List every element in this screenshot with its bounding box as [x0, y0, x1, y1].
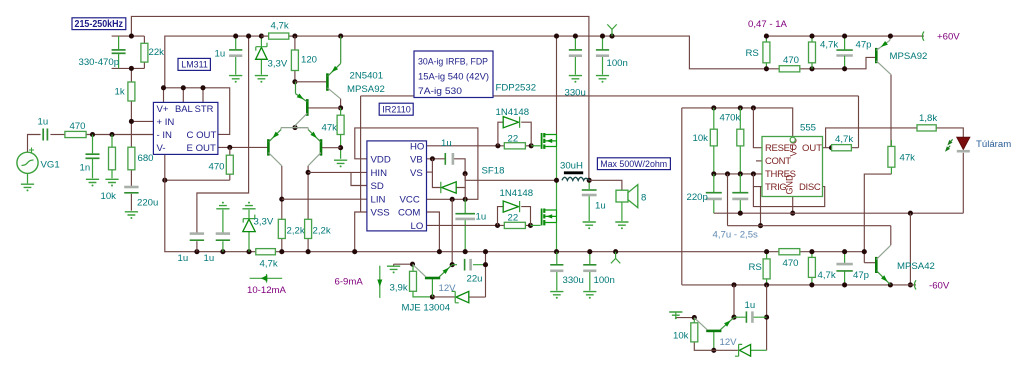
node diff tail	[292, 125, 297, 130]
node supply riser top	[246, 34, 251, 39]
node tank bottom	[129, 66, 134, 71]
ground trig	[669, 312, 682, 319]
node trig 1u left	[731, 315, 736, 320]
voltage source VG1	[17, 152, 38, 173]
wire 555 supply rail	[682, 108, 793, 137]
svg-text:2N5401: 2N5401	[350, 71, 384, 82]
svg-text:STR: STR	[195, 103, 214, 114]
resistor 4,7k out	[832, 145, 852, 151]
svg-text:HO: HO	[410, 141, 424, 152]
transistor Q6 MPSA92	[875, 48, 878, 63]
wire right diff base	[322, 147, 341, 149]
svg-text:10k: 10k	[693, 133, 709, 144]
node VCC reg tap	[450, 197, 455, 202]
node HO gate left	[495, 143, 500, 148]
wire 22k leads	[143, 36, 145, 68]
capacitor 1u output	[582, 189, 597, 191]
node bottom 100n rail	[587, 249, 592, 254]
ground VG1	[21, 184, 34, 191]
svg-text:-60V: -60V	[929, 280, 950, 291]
wire mirror collector riser	[340, 99, 342, 108]
node 1u bypass	[233, 34, 238, 39]
capacitor 47p top	[836, 49, 852, 51]
svg-text:GND: GND	[785, 174, 795, 195]
node thres disc	[751, 171, 756, 176]
capacitor 330u top	[569, 49, 582, 51]
wire 47k2 leads	[890, 146, 892, 174]
svg-text:- IN: - IN	[157, 130, 173, 141]
wire trig base row	[694, 342, 738, 350]
zener 3,3V top	[256, 47, 268, 59]
svg-text:12V: 12V	[720, 337, 738, 348]
node RS2 top	[764, 249, 769, 254]
node 47p top-b	[842, 66, 847, 71]
wire VS stub	[427, 171, 433, 173]
diode D3 1N4148 bottom	[503, 201, 518, 212]
svg-text:1N4148: 1N4148	[500, 188, 534, 199]
svg-text:47p: 47p	[856, 40, 872, 51]
node 47p2 top	[842, 249, 847, 254]
wire lower source to rail	[556, 223, 558, 252]
node V- row	[162, 178, 167, 183]
wire bottom 100n leads	[589, 252, 591, 291]
node MPSA92 emitter	[888, 34, 893, 39]
node tank top	[129, 34, 134, 39]
ground 330u top	[569, 76, 582, 83]
wire 30uH output node risers	[588, 180, 590, 221]
wire 470 feedback leads	[229, 147, 231, 180]
node trig drop	[758, 223, 763, 228]
resistor 4,7k top	[809, 42, 816, 63]
node mirror emitter top	[338, 34, 343, 39]
svg-text:3,3V: 3,3V	[254, 217, 274, 228]
ground 10k input	[105, 179, 118, 186]
ground 220u	[125, 212, 138, 219]
node drain column top	[554, 34, 559, 39]
wire trigger rail	[728, 225, 891, 227]
wire mid rail right segment	[800, 251, 865, 253]
wire 47p top leads	[844, 36, 846, 69]
wire trig 1u row	[734, 316, 767, 318]
svg-text:4,7k: 4,7k	[835, 134, 853, 145]
wire 4,7k osc leads	[261, 35, 295, 37]
svg-text:1u: 1u	[476, 212, 487, 223]
resistor 10k trig	[691, 323, 698, 342]
capacitor 1u float-a	[190, 239, 204, 241]
svg-text:4,7u - 2,5s: 4,7u - 2,5s	[713, 229, 759, 240]
wire VG1 to input cap	[28, 135, 41, 153]
svg-text:1u: 1u	[745, 300, 756, 311]
svg-text:330u: 330u	[565, 87, 586, 98]
node trig base	[711, 348, 716, 353]
wire half-bridge drain column	[556, 36, 558, 134]
wire 470k leads	[739, 108, 741, 174]
wire right 2,2k bottom	[307, 239, 309, 252]
svg-text:1u: 1u	[441, 138, 452, 149]
capacitor 4,7u timing	[732, 192, 748, 194]
wire 4,7k top leads	[811, 36, 813, 69]
svg-text:LIN: LIN	[371, 194, 386, 205]
resistor RS top	[763, 42, 770, 63]
ground 100n bottom	[583, 292, 596, 299]
svg-text:15A-ig 540 (42V): 15A-ig 540 (42V)	[418, 72, 489, 83]
svg-text:220u: 220u	[137, 197, 158, 208]
node 3,3V-a	[259, 34, 264, 39]
svg-text:LM311: LM311	[181, 60, 208, 71]
svg-text:4,7k: 4,7k	[818, 270, 836, 281]
transistor Q1 2N5401 (upper)	[326, 73, 329, 91]
wire trig gnd row	[676, 317, 694, 319]
capacitor 1u float-b	[216, 239, 230, 241]
wire reset riser	[753, 108, 762, 148]
node mirror diode node	[338, 105, 343, 110]
capacitor 1u bootstrap	[444, 153, 446, 165]
wire trig drop	[760, 187, 762, 226]
node gnd riser rail2	[908, 282, 913, 287]
wire diff tail link	[295, 127, 307, 129]
wire LM311 top pin stubs	[164, 88, 204, 103]
node thres trig-drop	[725, 171, 730, 176]
node bridge midpoint	[554, 178, 559, 183]
wire bottom gate lead	[531, 224, 541, 226]
wire bottom 4,7k leads	[811, 252, 813, 285]
ground 100n top	[596, 76, 609, 83]
svg-text:OUT: OUT	[802, 143, 822, 154]
wire zener2 anode lead	[751, 349, 767, 351]
capacitor 1u trig	[745, 311, 747, 322]
transistor Q7 MPSA42	[875, 257, 878, 273]
current arrow 6-9mA	[379, 266, 381, 298]
node LO gate right	[528, 223, 533, 228]
node RS2 bottom	[764, 282, 769, 287]
svg-text:RS: RS	[749, 262, 762, 273]
resistor 10k input	[109, 147, 116, 170]
capacitor 100n top	[596, 49, 609, 51]
svg-text:MPSA92: MPSA92	[890, 51, 928, 62]
svg-text:4,7k: 4,7k	[260, 258, 278, 269]
resistor 680	[128, 147, 135, 170]
resistor 3,9k	[410, 271, 417, 291]
timer U3 555 box	[762, 137, 823, 197]
svg-text:C OUT: C OUT	[187, 130, 217, 141]
node reset top	[751, 105, 756, 110]
node 100n top	[600, 34, 605, 39]
inductor L1 30uH	[564, 171, 583, 174]
wire HO gate row	[427, 145, 532, 147]
capacitor 47p bottom	[836, 270, 852, 272]
inverted ground 3,3V float	[242, 202, 255, 209]
wire 555 GND pin	[792, 197, 794, 214]
wire right diff collector riser	[307, 166, 309, 220]
wire CONT stub	[756, 160, 762, 162]
wire bottom 47p leads	[844, 252, 846, 285]
svg-text:22k: 22k	[149, 47, 165, 58]
connector -60V	[914, 280, 916, 289]
node HO gate right	[529, 143, 534, 148]
capacitor 22u	[464, 259, 466, 271]
annotation box Max 500W/2ohm	[597, 158, 670, 170]
capacitor 100n bottom	[583, 264, 596, 266]
svg-text:CONT: CONT	[765, 156, 791, 167]
node 470k top	[738, 105, 743, 110]
svg-text:1u: 1u	[178, 253, 189, 264]
node 47p top-t	[842, 34, 847, 39]
svg-text:RS: RS	[746, 48, 759, 59]
wire 3,9k bottom	[413, 291, 432, 297]
wire left 2,2k bottom	[281, 239, 283, 252]
wire top gate lead	[531, 145, 540, 147]
wire oscillator divider column (1k-680-220u)	[130, 68, 132, 210]
wire mje base stub	[431, 279, 433, 297]
svg-text:4,7k: 4,7k	[271, 21, 289, 32]
speaker SPK	[616, 190, 628, 202]
wire 47k2 top lead	[890, 140, 892, 146]
svg-text:555: 555	[800, 123, 816, 134]
node left 2,2k rail	[279, 249, 284, 254]
resistor 22k	[141, 43, 148, 62]
diode D2 SF18	[442, 182, 457, 193]
node RS top-t	[764, 34, 769, 39]
svg-text:BAL: BAL	[175, 103, 193, 114]
svg-text:215-250kHz: 215-250kHz	[75, 19, 124, 30]
svg-text:MJE 13004: MJE 13004	[402, 303, 451, 314]
node right 2,2k rail	[306, 249, 311, 254]
led D4 Tulaream	[957, 137, 970, 149]
diode D1 1N4148 top	[503, 117, 518, 128]
wire VS to bridge midpoint	[465, 174, 556, 181]
resistor 120	[291, 50, 298, 71]
svg-text:100n: 100n	[594, 275, 615, 286]
wire VB cap to VS corner	[453, 159, 465, 174]
svg-text:0,47 - 1A: 0,47 - 1A	[748, 19, 788, 30]
svg-text:30uH: 30uH	[560, 160, 583, 171]
wire LED cathode drop	[962, 153, 964, 213]
wire 555 supply riser	[681, 108, 683, 285]
wire 330-470p leads	[118, 36, 120, 68]
svg-text:VG1: VG1	[41, 160, 60, 171]
wire trig transistor base	[713, 332, 715, 351]
svg-text:22: 22	[508, 133, 519, 144]
wire VSS wire	[355, 212, 367, 252]
node BAL stub	[181, 85, 186, 90]
svg-text:Max 500W/2ohm: Max 500W/2ohm	[600, 159, 667, 170]
node zener 1u tap	[764, 315, 769, 320]
label LM311	[178, 58, 210, 70]
resistor 2,2k left	[278, 219, 285, 238]
resistor 1k	[128, 82, 135, 101]
transistor Q2 (cascode)	[306, 99, 309, 116]
resistor 1,8k	[917, 125, 936, 131]
svg-text:IR2110: IR2110	[382, 104, 411, 115]
wire left diff collector riser	[281, 166, 283, 220]
inverted ground 1u float-b	[216, 202, 229, 209]
wire SD rail drop to VSS row	[360, 96, 362, 212]
node diff ground tap	[338, 145, 343, 150]
svg-text:330u: 330u	[563, 275, 584, 286]
wire timing to trig rail riser	[727, 174, 729, 226]
node VB	[430, 156, 435, 161]
mosfet M1 upper	[541, 133, 543, 149]
wire GND rail	[714, 212, 964, 214]
svg-text:1n: 1n	[80, 162, 91, 173]
svg-text:+ IN: + IN	[157, 117, 175, 128]
wire 10k trig leads	[693, 318, 695, 323]
resistor 10k 555	[710, 129, 717, 146]
wire +60V rail	[766, 35, 924, 37]
node 47k2b top	[809, 249, 814, 254]
svg-text:V+: V+	[157, 104, 169, 115]
zener 12V reg	[456, 291, 469, 302]
resistor 22 bottom	[504, 222, 525, 228]
wire top diode branch	[498, 122, 531, 146]
svg-text:FDP2532: FDP2532	[496, 83, 537, 94]
wire bottom diode branch	[498, 207, 531, 226]
wire trig gnd stem	[675, 312, 677, 318]
wire front-end positive rail (V+ net)	[165, 36, 767, 88]
node 10k junction	[109, 132, 114, 137]
svg-text:VCC: VCC	[400, 194, 420, 205]
label IR2110	[379, 103, 413, 115]
wire 1,8k row	[826, 128, 964, 148]
svg-text:47p: 47p	[853, 270, 869, 281]
wire MPSA42 base	[864, 262, 875, 264]
svg-text:1N4148: 1N4148	[496, 107, 530, 118]
svg-text:+60V: +60V	[937, 31, 960, 42]
node +IN junction	[129, 119, 134, 124]
svg-text:3,3V: 3,3V	[268, 59, 288, 70]
wire 3,9k top lead	[412, 264, 414, 271]
svg-text:30A-ig IRFB, FDP: 30A-ig IRFB, FDP	[418, 57, 488, 68]
svg-text:2,2k: 2,2k	[287, 225, 305, 236]
wire LIN wire	[282, 198, 367, 200]
annotation box 215-250kHz	[72, 18, 126, 30]
node V+ stub	[161, 85, 166, 90]
node 555 gnd	[790, 211, 795, 216]
svg-text:47k: 47k	[900, 153, 916, 164]
node 120 top	[292, 34, 297, 39]
wire trig rail drop to collector	[890, 226, 892, 246]
svg-text:DISC: DISC	[799, 182, 821, 193]
wire trig 1u riser	[733, 285, 735, 317]
wire RC tank bottom	[112, 67, 145, 69]
resistor 470 EOUT	[226, 155, 233, 174]
ground speaker	[615, 222, 628, 229]
wire zener anode riser	[766, 285, 768, 350]
wire SD/protection rail	[361, 95, 859, 97]
connector +60V	[922, 32, 924, 41]
svg-text:470: 470	[783, 55, 799, 66]
svg-text:680: 680	[138, 153, 154, 164]
capacitor 1u COM	[455, 213, 475, 215]
svg-text:VS: VS	[410, 168, 423, 179]
wire OUT row	[823, 147, 859, 149]
svg-text:120: 120	[301, 54, 317, 65]
wire riser gnd rail to -60V rail	[909, 213, 911, 285]
node zener tap	[246, 249, 251, 254]
wire RS top leads	[765, 36, 767, 69]
svg-text:10k: 10k	[673, 331, 689, 342]
wire 22u row	[452, 264, 485, 266]
resistor 47k tail	[337, 115, 344, 134]
wire half-bridge midpoint column	[556, 147, 558, 211]
wire feedback net (osc node to output node)	[131, 16, 589, 180]
svg-text:VSS: VSS	[371, 208, 390, 219]
wire 1u-b column	[222, 210, 224, 252]
current arrow 10-12mA	[250, 274, 283, 283]
resistor 470 bottom	[779, 249, 800, 255]
wire 3,3V-a leads	[260, 36, 262, 75]
node thres 10k	[711, 171, 716, 176]
driver U2 IR2110 box	[367, 141, 427, 231]
ground 1u bypass	[229, 76, 242, 83]
mosfet M2 lower	[541, 209, 543, 226]
node 470 top right	[809, 66, 814, 71]
resistor 4,7k osc	[269, 33, 289, 39]
wire thres-trig tie	[753, 174, 762, 187]
node trig gnd node	[692, 315, 697, 320]
wire HIN wire	[308, 171, 367, 173]
node RS top-b	[764, 66, 769, 71]
svg-text:100n: 100n	[607, 58, 628, 69]
zener 12V trig	[739, 344, 750, 356]
capacitor 1u input	[43, 129, 47, 141]
node 1u-a tap	[194, 249, 199, 254]
resistor 4,7k series	[256, 249, 276, 255]
wire 47k tail leads	[340, 108, 342, 159]
node rail2 trig-riser	[731, 282, 736, 287]
svg-text:1u: 1u	[215, 49, 226, 60]
svg-text:10k: 10k	[101, 191, 117, 202]
pin circle VCC	[790, 137, 795, 142]
wire -IN signal row	[86, 134, 153, 136]
wire bottom 330u leads	[556, 252, 558, 291]
wire SD loop	[351, 172, 367, 185]
svg-text:SF18: SF18	[482, 165, 505, 176]
node MPSA42 emitter rail	[888, 282, 893, 287]
wire input cap to 470	[50, 134, 65, 136]
node E OUT	[227, 145, 232, 150]
svg-text:HIN: HIN	[371, 168, 388, 179]
wire DISC return	[753, 187, 824, 207]
node gnd led riser	[908, 211, 913, 216]
svg-text:1k: 1k	[115, 86, 125, 97]
led arrows	[946, 139, 952, 150]
svg-text:470: 470	[70, 121, 86, 132]
svg-text:TRIG: TRIG	[765, 182, 787, 193]
wire 4,7u leads	[739, 174, 741, 213]
wire E-OUT 470 return	[165, 179, 230, 181]
annotation box FET types	[414, 51, 493, 98]
wire regulator riser	[451, 199, 453, 264]
wire RS sense row / 470 row (top)	[766, 57, 876, 68]
svg-text:47k: 47k	[322, 123, 338, 134]
node lower source rail	[554, 249, 559, 254]
svg-text:MPSA92: MPSA92	[347, 84, 385, 95]
node 4,7k top-t	[809, 34, 814, 39]
svg-text:6-9mA: 6-9mA	[335, 276, 364, 287]
node 330u top	[573, 34, 578, 39]
ground 47k tail	[334, 160, 347, 167]
resistor 22 top	[504, 143, 525, 149]
wire supply riser to floating caps	[197, 36, 249, 233]
wire 10k input leads	[111, 135, 113, 179]
capacitor 220u	[124, 192, 138, 194]
node mje collector	[410, 262, 415, 267]
node input R junction	[90, 132, 95, 137]
zener 3,3V float	[243, 219, 255, 231]
svg-text:1u: 1u	[204, 253, 215, 264]
node jumper top	[609, 34, 614, 39]
